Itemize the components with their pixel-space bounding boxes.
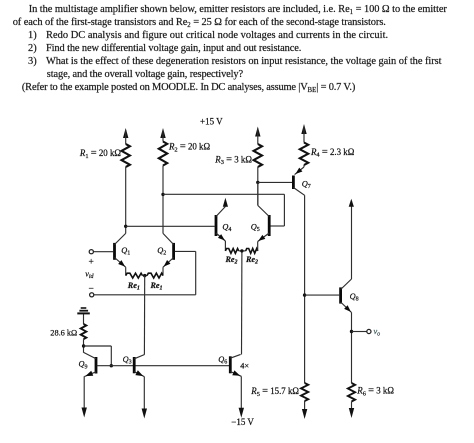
svg-text:+: + xyxy=(89,257,94,267)
svg-text:−15 V: −15 V xyxy=(231,417,254,427)
svg-text:R4 = 2.3 kΩ: R4 = 2.3 kΩ xyxy=(310,147,355,159)
svg-text:Re1: Re1 xyxy=(149,281,162,292)
svg-text:Q4: Q4 xyxy=(222,222,231,233)
svg-text:R5 = 15.7 kΩ: R5 = 15.7 kΩ xyxy=(250,386,299,398)
svg-text:Re2: Re2 xyxy=(224,255,237,266)
svg-text:4×: 4× xyxy=(240,361,249,370)
svg-text:Re2: Re2 xyxy=(245,255,258,266)
svg-text:−: − xyxy=(89,285,94,295)
svg-text:R1 = 20 kΩ: R1 = 20 kΩ xyxy=(79,148,121,160)
svg-text:+15 V: +15 V xyxy=(200,117,223,127)
svg-text:Re1: Re1 xyxy=(127,281,140,292)
svg-text:Q6: Q6 xyxy=(218,355,227,366)
svg-text:Q9: Q9 xyxy=(79,360,88,371)
svg-text:Q2: Q2 xyxy=(157,246,166,257)
svg-text:R2 = 20 kΩ: R2 = 20 kΩ xyxy=(168,142,210,154)
svg-text:Q8: Q8 xyxy=(350,292,359,303)
svg-text:28.6 kΩ: 28.6 kΩ xyxy=(50,329,77,338)
svg-text:vo: vo xyxy=(374,327,381,338)
svg-text:Q5: Q5 xyxy=(251,222,260,233)
svg-text:Q7: Q7 xyxy=(302,179,311,190)
svg-text:Q1: Q1 xyxy=(121,246,130,257)
svg-text:R3 = 3 kΩ: R3 = 3 kΩ xyxy=(214,154,252,166)
svg-text:vid: vid xyxy=(85,270,94,281)
svg-text:R6 = 3 kΩ: R6 = 3 kΩ xyxy=(356,386,394,398)
svg-text:Q3: Q3 xyxy=(123,355,132,366)
